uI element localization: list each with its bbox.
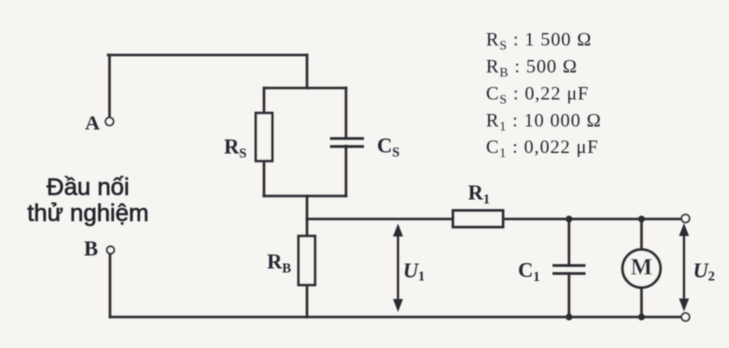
arrow U2	[679, 223, 689, 312]
wire C1 top	[568, 219, 571, 266]
terminal B	[107, 246, 114, 253]
svg-text:thử nghiệm: thử nghiệm	[27, 200, 148, 227]
wire box bottom rail	[264, 195, 346, 198]
terminal U2 bottom	[682, 313, 690, 321]
wire M bottom	[640, 288, 643, 318]
wire RB top	[306, 219, 309, 236]
wire bottom rail	[110, 316, 682, 319]
wire CS branch top	[345, 88, 348, 138]
wire middle rail left	[307, 218, 453, 221]
wire top rail	[108, 54, 307, 57]
wire RB bottom	[306, 286, 309, 317]
resistor RS	[256, 113, 272, 161]
junction C1 top	[566, 216, 573, 223]
wire box to node	[306, 196, 309, 219]
motor M	[623, 250, 661, 288]
svg-text:M: M	[631, 255, 653, 280]
wire B down	[109, 254, 112, 317]
junction M top	[638, 216, 645, 223]
capacitor C1	[553, 266, 586, 274]
junction M bottom	[638, 314, 645, 321]
svg-text:B: B	[84, 237, 98, 261]
resistor R1	[453, 211, 503, 228]
wire M top	[640, 219, 643, 250]
wire middle rail right	[503, 218, 682, 221]
wire RS branch top	[263, 88, 266, 113]
wire RS branch bottom	[263, 161, 266, 196]
wire box top rail	[264, 87, 346, 90]
wire down to box	[306, 55, 309, 88]
terminal U2 top	[682, 215, 690, 223]
junction C1 bottom	[566, 314, 573, 321]
terminal A	[106, 118, 114, 126]
wire A up	[108, 55, 111, 117]
resistor RB	[299, 236, 316, 285]
wire CS branch bottom	[345, 146, 348, 196]
wire C1 bottom	[568, 274, 571, 318]
svg-text:A: A	[85, 113, 100, 135]
capacitor CS	[330, 139, 364, 147]
arrow U1	[393, 224, 403, 313]
svg-text:Đầu nối: Đầu nối	[47, 174, 130, 201]
